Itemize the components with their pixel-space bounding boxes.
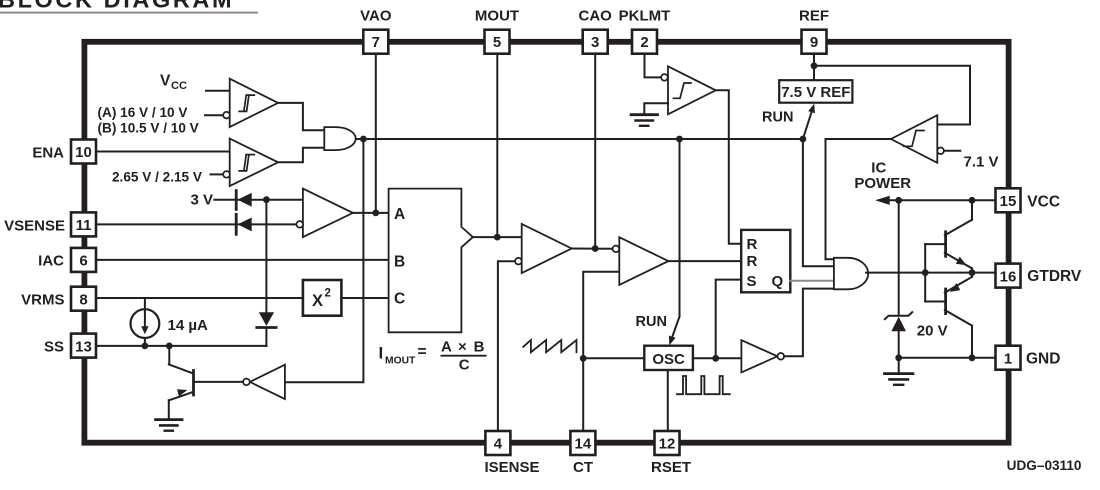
svg-text:13: 13 <box>75 338 92 355</box>
wire Q output to AND2 <box>790 280 834 282</box>
waveform clock pulses <box>677 376 730 394</box>
wire REF down to 7.5V REF box <box>813 54 815 80</box>
svg-text:20 V: 20 V <box>917 323 948 340</box>
wire VSENSE to error amp inverting input <box>96 223 296 225</box>
svg-text:=: = <box>418 344 427 361</box>
pin 8 VRMS <box>21 287 96 311</box>
wire UVLO threshold stub <box>205 114 223 116</box>
svg-text:12: 12 <box>659 436 676 453</box>
svg-text:V: V <box>160 73 171 90</box>
svg-text:ISENSE: ISENSE <box>485 459 540 476</box>
svg-text:C: C <box>394 291 405 308</box>
node RUN (AND1 output) <box>360 136 367 143</box>
svg-text:X: X <box>312 292 323 310</box>
wire 3V junction down to D3 <box>265 200 267 313</box>
svg-text:7.1 V: 7.1 V <box>964 154 999 171</box>
svg-text:7: 7 <box>372 34 380 51</box>
wire current amp output <box>572 248 613 250</box>
svg-text:UDG–03110: UDG–03110 <box>1007 458 1082 473</box>
wire CT to OSC <box>583 357 644 359</box>
wire ENA threshold stub <box>211 173 224 175</box>
node SS-transistor junction <box>166 343 173 350</box>
svg-text:7.5 V REF: 7.5 V REF <box>781 84 850 101</box>
wire SS rail <box>96 345 266 347</box>
multiplier M1 (A x B / C) <box>389 189 473 333</box>
pin 10 ENA <box>32 140 96 164</box>
node driver-GND junction <box>969 354 976 361</box>
svg-text:PKLMT: PKLMT <box>619 8 671 25</box>
wire U2 output to AND1 <box>278 148 324 163</box>
wire U9 output to AND2 <box>826 139 891 259</box>
node 3V junction <box>263 196 270 203</box>
svg-text:(A) 16 V / 10 V: (A) 16 V / 10 V <box>98 105 188 120</box>
wire RUN to OSC with arrow <box>669 139 680 345</box>
svg-text:MOUT: MOUT <box>475 8 519 25</box>
svg-text:CAO: CAO <box>579 8 613 25</box>
wire driver base rail <box>924 244 926 301</box>
svg-text:VSENSE: VSENSE <box>4 218 65 235</box>
svg-text:2: 2 <box>640 34 648 51</box>
node REF junction <box>811 62 818 69</box>
svg-text:1: 1 <box>1004 350 1012 367</box>
pin 7 VAO <box>360 8 392 54</box>
node base junction <box>922 269 929 276</box>
ground (PKLMT comparator) <box>631 115 657 126</box>
op-amp U8 OSC inverter <box>741 340 784 372</box>
svg-text:6: 6 <box>79 253 87 270</box>
wire RSET to OSC <box>667 370 669 431</box>
op-amp U6 PWM comparator <box>613 237 669 285</box>
svg-text:GTDRV: GTDRV <box>1027 268 1082 285</box>
block 7.5 V REF <box>779 80 852 103</box>
svg-text:2.65 V / 2.15 V: 2.65 V / 2.15 V <box>112 170 202 185</box>
diode D3 (SS clamp) <box>257 312 276 346</box>
wire ISENSE to current amp inverting input <box>498 261 515 431</box>
wire IAC to multiplier B input <box>96 259 389 261</box>
pin 12 RSET <box>651 431 691 476</box>
svg-text:CT: CT <box>573 459 593 476</box>
node CT-OSC junction <box>580 355 587 362</box>
wire PKLMT comparator + input to ground <box>644 103 668 113</box>
svg-text:2: 2 <box>325 288 331 300</box>
svg-text:RUN: RUN <box>762 110 793 126</box>
svg-text:VRMS: VRMS <box>21 291 64 308</box>
svg-text:SS: SS <box>44 339 64 356</box>
svg-text:4: 4 <box>494 436 503 453</box>
svg-text:S: S <box>747 273 757 290</box>
wire OSC output <box>693 357 742 359</box>
node zener-GND junction <box>895 354 902 361</box>
wire CT vertical to PWM comparator <box>583 272 619 431</box>
current source I1 14uA <box>131 298 160 346</box>
diode D2 (VSENSE) <box>236 214 252 234</box>
wire AND2 output to driver <box>866 272 995 274</box>
AND gate AND1 (enable logic) <box>324 127 355 150</box>
wire VCC stub <box>206 90 230 92</box>
op-amp U9 7.1V reference-good comparator <box>891 115 944 163</box>
IC boundary <box>84 42 1008 443</box>
op-amp U2 ENA hysteresis comparator <box>223 139 278 186</box>
pin 14 CT <box>570 431 595 476</box>
ground (driver) <box>885 358 913 385</box>
zener diode Z1 20V <box>885 200 912 357</box>
svg-text:(B) 10.5 V / 10 V: (B) 10.5 V / 10 V <box>98 121 199 136</box>
wire X2 to multiplier C input <box>341 297 388 299</box>
transistor Q2 (driver NPN) <box>925 200 972 272</box>
op-amp U1 VCC UVLO hysteresis comparator <box>223 79 278 127</box>
pin 9 REF <box>799 8 829 54</box>
svg-text:OSC: OSC <box>652 351 685 368</box>
waveform sawtooth <box>523 340 576 352</box>
op-amp U5 current amplifier <box>515 224 571 273</box>
transistor Q3 (driver PNP) <box>925 273 972 358</box>
svg-text:CC: CC <box>171 80 187 92</box>
pin 3 CAO <box>579 8 613 54</box>
svg-text:5: 5 <box>493 34 501 51</box>
svg-text:R: R <box>747 253 758 270</box>
svg-text:ENA: ENA <box>32 145 64 162</box>
svg-text:3: 3 <box>591 34 599 51</box>
ground (below Q1) <box>156 420 182 431</box>
wire ENA to comparator <box>96 151 230 153</box>
svg-text:10: 10 <box>75 144 92 161</box>
svg-text:14 µA: 14 µA <box>168 317 208 334</box>
flip-flop latch RRS-Q <box>741 230 790 292</box>
wire VRMS to X2 block <box>96 297 303 299</box>
svg-text:A × B: A × B <box>441 339 486 356</box>
wire multiplier output to current amp <box>473 236 522 238</box>
node SS-current source junction <box>142 343 149 350</box>
svg-text:BLOCK DIAGRAM: BLOCK DIAGRAM <box>0 0 234 13</box>
wire error amp output to multiplier A <box>353 212 389 214</box>
diode D1 (3V clamp) <box>236 191 252 210</box>
block OSC <box>644 346 693 370</box>
svg-text:8: 8 <box>79 291 87 308</box>
op-amp U7 PKLMT comparator <box>661 66 716 114</box>
svg-text:A: A <box>394 206 405 223</box>
svg-text:IAC: IAC <box>38 253 64 270</box>
wire RUN arrow to 7.5V REF <box>803 104 815 139</box>
node MOUT junction <box>494 234 501 241</box>
svg-text:GND: GND <box>1026 351 1060 368</box>
label formula I_MOUT = A x B / C <box>379 339 486 374</box>
wire 3V clamp line <box>214 199 303 201</box>
svg-text:Q: Q <box>772 273 784 290</box>
node RUN-arrow junction <box>800 136 807 143</box>
wire PKLMT comparator output to latch R1 <box>716 90 742 243</box>
wire inverter output to Q1 base <box>195 381 243 383</box>
op-amp U4 inverter (RUN to SS transistor) <box>243 365 285 399</box>
transistor Q1 (SS discharge PNP) <box>169 346 194 419</box>
svg-text:C: C <box>459 357 470 374</box>
wire OSC inverter to AND2 <box>784 289 834 357</box>
wire U1 output to AND1 <box>278 103 324 130</box>
pin 13 SS <box>44 334 96 358</box>
AND gate AND2 (gate drive logic) <box>834 258 868 290</box>
svg-text:POWER: POWER <box>854 175 911 192</box>
wire OSC to latch S input <box>716 280 742 359</box>
pin 5 MOUT <box>475 8 519 54</box>
wire PWM comparator output to latch R <box>668 260 741 262</box>
node VAO junction <box>372 210 379 217</box>
svg-text:REF: REF <box>799 8 829 25</box>
node CAO junction <box>592 245 599 252</box>
node OSC output junction <box>712 355 719 362</box>
svg-text:3 V: 3 V <box>191 192 214 209</box>
label IC POWER <box>854 160 911 192</box>
pin 4 ISENSE <box>485 431 540 476</box>
node RUN-OSC junction <box>676 136 683 143</box>
node GTDRV junction <box>969 269 976 276</box>
node driver-VCC junction <box>969 197 976 204</box>
block X2 (squarer) <box>303 280 342 316</box>
wire RUN vertical to SS inverter <box>285 139 364 382</box>
pin 15 VCC <box>996 188 1061 212</box>
svg-text:VAO: VAO <box>360 8 392 25</box>
wire PKLMT to comparator <box>645 54 662 78</box>
pin 2 PKLMT <box>619 8 671 54</box>
pin 11 VSENSE <box>4 212 96 236</box>
svg-text:B: B <box>394 254 405 271</box>
svg-text:11: 11 <box>76 217 92 234</box>
svg-text:RUN: RUN <box>636 314 667 330</box>
wire RUN to AND2 <box>803 139 834 266</box>
svg-text:14: 14 <box>575 436 592 453</box>
wire MOUT vertical <box>496 54 498 237</box>
pin 1 GND <box>996 346 1061 370</box>
wire GND rail <box>899 357 996 359</box>
svg-text:MOUT: MOUT <box>385 356 416 367</box>
node zener-VCC junction <box>895 197 902 204</box>
svg-text:15: 15 <box>1000 193 1017 210</box>
svg-text:16: 16 <box>1000 268 1017 285</box>
pin 6 IAC <box>38 248 96 272</box>
pin 16 GTDRV <box>996 264 1082 288</box>
label VCC for UVLO comparator <box>160 73 187 93</box>
svg-text:VCC: VCC <box>1027 194 1060 211</box>
wire RUN rail <box>356 138 803 140</box>
svg-text:9: 9 <box>810 34 818 51</box>
wire VAO vertical <box>375 54 377 213</box>
wire REF to 7.1V comparator input <box>814 66 970 125</box>
wire CAO vertical <box>594 54 596 249</box>
op-amp U3 voltage error amplifier <box>296 189 352 238</box>
svg-text:I: I <box>379 344 384 363</box>
wire 7.1V threshold stub <box>944 150 961 152</box>
svg-text:R: R <box>747 236 758 253</box>
wire VCC rail with IC POWER arrow <box>875 196 995 205</box>
svg-text:RSET: RSET <box>651 459 691 476</box>
